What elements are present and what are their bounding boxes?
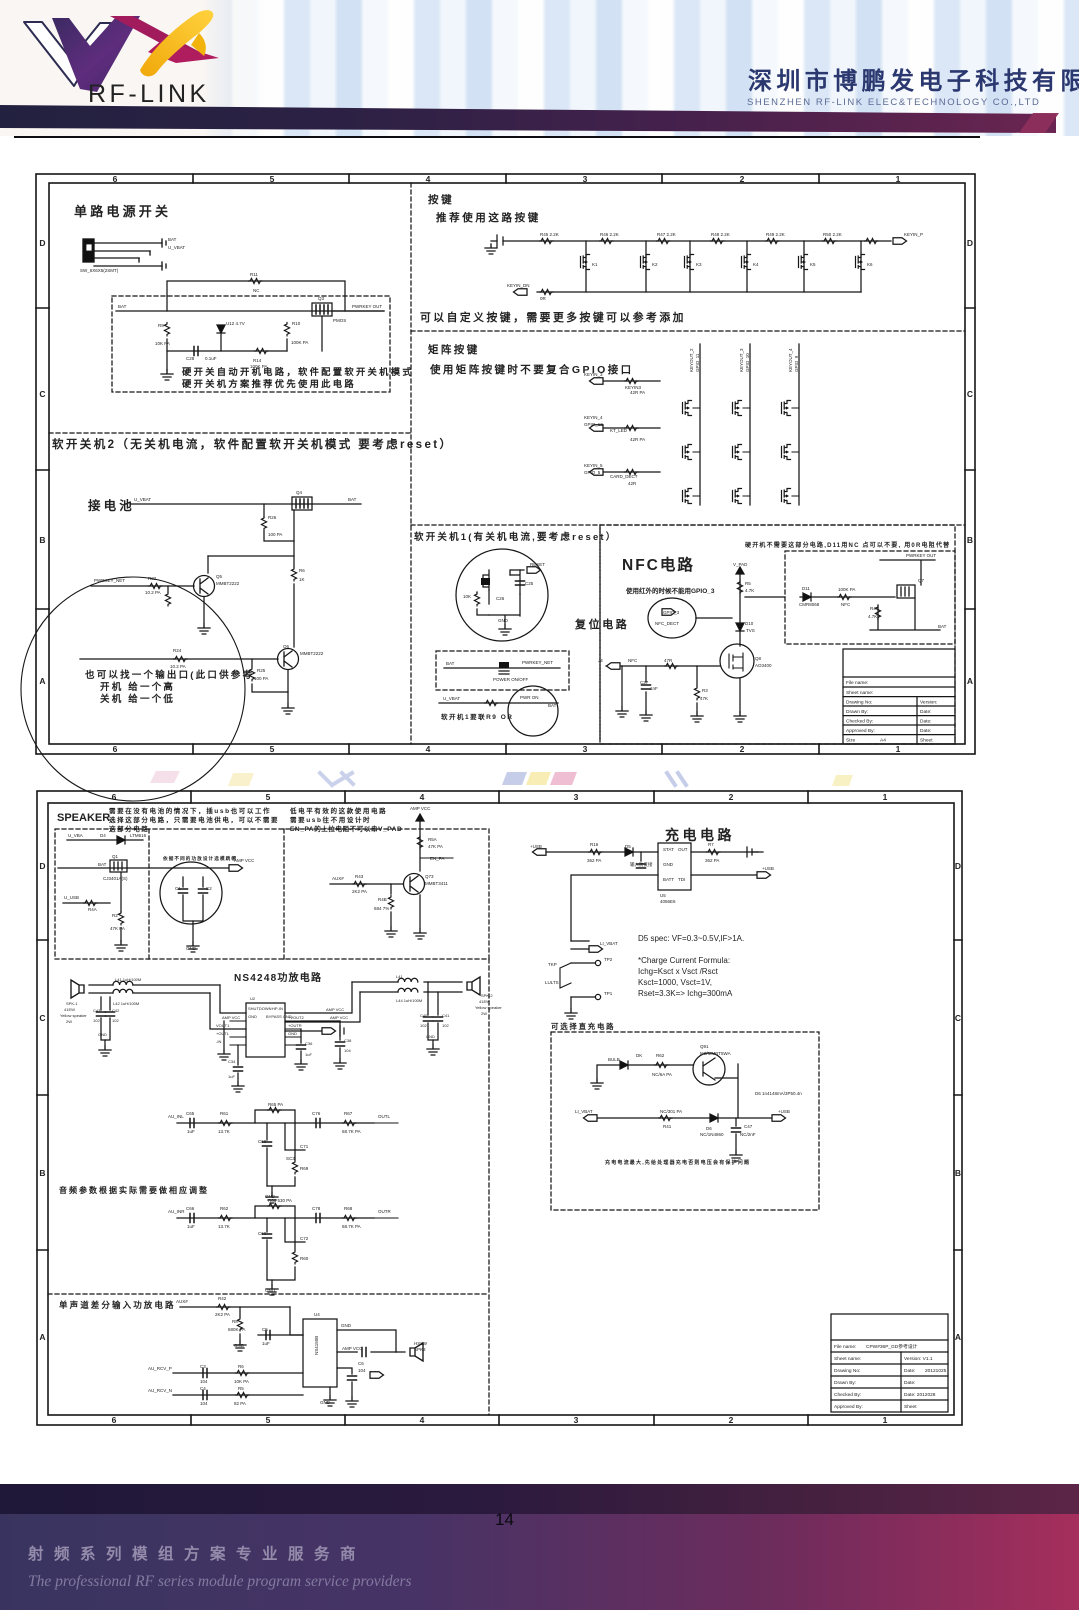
svg-text:10.2 PA: 10.2 PA (170, 664, 186, 669)
svg-text:NS4150B: NS4150B (314, 1336, 319, 1355)
svg-text:KEYIN_DN: KEYIN_DN (507, 283, 530, 288)
svg-text:C3: C3 (200, 1364, 206, 1369)
svg-text:CARD_DECT: CARD_DECT (610, 474, 638, 479)
svg-text:2K2 PA: 2K2 PA (352, 889, 367, 894)
svg-text:按键: 按键 (428, 193, 454, 206)
svg-text:R2: R2 (112, 913, 118, 918)
svg-text:充电电路: 充电电路 (665, 827, 735, 843)
svg-text:R68: R68 (344, 1206, 353, 1211)
svg-text:推荐使用这路按键: 推荐使用这路按键 (436, 211, 541, 224)
svg-text:2: 2 (729, 792, 734, 802)
svg-text:LULTS: LULTS (545, 980, 559, 985)
svg-text:C: C (967, 389, 973, 399)
svg-text:2: 2 (740, 744, 745, 754)
svg-text:100 PA: 100 PA (268, 532, 282, 537)
svg-text:+OUTL: +OUTL (216, 1031, 230, 1036)
svg-text:R22: R22 (148, 576, 157, 581)
svg-text:CMR8068: CMR8068 (799, 602, 820, 607)
svg-text:HP-IN: HP-IN (272, 1006, 283, 1011)
svg-text:这部分电路: 这部分电路 (109, 824, 150, 833)
svg-text:D: D (955, 861, 961, 871)
svg-text:GND: GND (234, 1343, 245, 1348)
svg-text:C5: C5 (262, 1327, 268, 1332)
svg-text:C42: C42 (112, 1008, 120, 1013)
svg-text:10K: 10K (463, 594, 471, 599)
svg-text:6: 6 (113, 174, 118, 184)
svg-text:C: C (39, 1013, 45, 1023)
svg-text:AMP VCC: AMP VCC (222, 1015, 240, 1020)
svg-text:PWRKEY OUT: PWRKEY OUT (906, 553, 936, 558)
svg-text:RESET: RESET (530, 562, 545, 567)
svg-text:Drawn By:: Drawn By: (846, 709, 868, 715)
svg-text:GND: GND (498, 618, 509, 623)
svg-text:Checked By:: Checked By: (834, 1392, 861, 1398)
svg-text:BULB: BULB (608, 1057, 620, 1062)
svg-text:KEYOUT_3: KEYOUT_3 (739, 348, 744, 372)
svg-text:Ichg=Ksct x Vsct /Rsct: Ichg=Ksct x Vsct /Rsct (638, 967, 719, 976)
svg-text:复位电路: 复位电路 (574, 617, 629, 631)
svg-text:GPIO_9: GPIO_9 (794, 355, 799, 372)
svg-text:GND: GND (320, 1400, 331, 1405)
svg-text:Q4: Q4 (296, 490, 303, 495)
svg-text:PWR ON: PWR ON (520, 695, 539, 700)
svg-text:输入防反接: 输入防反接 (630, 861, 653, 868)
svg-text:C68: C68 (258, 1139, 267, 1144)
svg-text:Sheet: Sheet (920, 738, 933, 744)
svg-text:2W: 2W (66, 1019, 72, 1024)
svg-text:C4: C4 (200, 1386, 206, 1391)
svg-text:D6 1n4148mA/3P50.4n: D6 1n4148mA/3P50.4n (755, 1091, 802, 1096)
svg-text:KEYIN_P: KEYIN_P (904, 232, 923, 237)
svg-text:Yellow speaker: Yellow speaker (475, 1005, 502, 1010)
svg-text:42R PA: 42R PA (630, 437, 645, 442)
svg-text:1nF: 1nF (650, 686, 658, 691)
svg-text:CJ3401A(S): CJ3401A(S) (103, 876, 128, 881)
svg-text:R6: R6 (299, 568, 305, 573)
svg-text:GND: GND (663, 862, 674, 867)
svg-text:1: 1 (896, 744, 901, 754)
svg-text:2W: 2W (481, 1011, 487, 1016)
svg-text:SPK-1: SPK-1 (66, 1001, 78, 1006)
svg-text:B: B (955, 1168, 961, 1178)
svg-text:GPIO_3: GPIO_3 (663, 610, 680, 615)
svg-text:KEYIN_5: KEYIN_5 (584, 463, 603, 468)
svg-text:A: A (967, 676, 973, 686)
svg-text:U12 4.7V: U12 4.7V (226, 321, 245, 326)
svg-text:GND: GND (248, 1014, 257, 1019)
svg-text:B: B (39, 535, 45, 545)
svg-text:NS4248功放电路: NS4248功放电路 (234, 971, 322, 984)
svg-text:BATT: BATT (663, 877, 674, 882)
svg-text:TKP: TKP (548, 962, 557, 967)
svg-text:NC/MMBT5WA: NC/MMBT5WA (700, 1051, 731, 1056)
svg-text:104: 104 (200, 1379, 208, 1384)
svg-text:软开机1要联R9 OR: 软开机1要联R9 OR (441, 712, 513, 721)
svg-text:362 PA: 362 PA (587, 858, 601, 863)
svg-text:C71: C71 (300, 1144, 309, 1149)
svg-text:AO3400: AO3400 (755, 663, 772, 668)
svg-text:Date: 2012028: Date: 2012028 (904, 1392, 936, 1398)
svg-text:接电池: 接电池 (88, 498, 135, 513)
svg-text:Ksct=1000, Vsct=1V,: Ksct=1000, Vsct=1V, (638, 978, 712, 987)
svg-text:D5 spec: VF=0.3~0.5V,IF>1A.: D5 spec: VF=0.3~0.5V,IF>1A. (638, 934, 744, 943)
svg-text:需要usb往不用设计时: 需要usb往不用设计时 (290, 815, 371, 824)
svg-text:EN_PA的上拉电阻不可以串V_PAD: EN_PA的上拉电阻不可以串V_PAD (290, 824, 402, 833)
svg-text:EN_PA: EN_PA (430, 856, 444, 861)
svg-text:LI_VBAT: LI_VBAT (575, 1109, 593, 1114)
svg-text:SW_6X6X5(2SMT): SW_6X6X5(2SMT) (80, 268, 119, 273)
svg-text:47R: 47R (664, 658, 673, 663)
svg-text:C6: C6 (358, 1361, 364, 1366)
svg-text:NFC: NFC (841, 602, 851, 607)
svg-text:R5: R5 (745, 581, 751, 586)
svg-text:C76: C76 (312, 1111, 321, 1116)
svg-text:R60: R60 (300, 1256, 309, 1261)
svg-text:4: 4 (426, 744, 431, 754)
svg-text:+USB: +USB (778, 1109, 790, 1114)
svg-text:A: A (39, 676, 45, 686)
svg-text:R48 2.2K: R48 2.2K (711, 232, 730, 237)
svg-text:1uF: 1uF (187, 1224, 195, 1229)
svg-text:102: 102 (112, 1018, 119, 1023)
svg-text:CPW#36P_GD参考设计: CPW#36P_GD参考设计 (866, 1343, 918, 1350)
svg-text:AUX#: AUX# (332, 876, 344, 881)
svg-text:PMOS: PMOS (333, 318, 346, 323)
svg-text:LI_VBAT: LI_VBAT (600, 941, 618, 946)
svg-text:+VOUT2: +VOUT2 (288, 1015, 304, 1020)
svg-text:Date:: Date: (920, 709, 931, 715)
svg-text:GPIO_10: GPIO_10 (745, 353, 750, 372)
svg-text:Q6: Q6 (283, 644, 290, 649)
svg-text:C66: C66 (186, 1206, 195, 1211)
svg-text:C1: C1 (175, 886, 181, 891)
svg-text:R46 2.2K: R46 2.2K (600, 232, 619, 237)
svg-text:AMP VCC: AMP VCC (234, 858, 255, 863)
svg-text:5: 5 (266, 792, 271, 802)
svg-text:6: 6 (112, 1415, 117, 1425)
svg-text:D10: D10 (745, 621, 754, 626)
svg-text:68.7K PA: 68.7K PA (342, 1224, 361, 1229)
svg-text:A: A (39, 1332, 45, 1342)
svg-text:100 PA: 100 PA (254, 676, 268, 681)
svg-text:A: A (955, 1332, 961, 1342)
svg-text:100K PA: 100K PA (291, 340, 308, 345)
svg-text:R49 2.2K: R49 2.2K (766, 232, 785, 237)
svg-text:需要在没有电池的情况下，插usb也可以工作: 需要在没有电池的情况下，插usb也可以工作 (109, 806, 271, 815)
svg-text:Drawing No:: Drawing No: (846, 700, 872, 706)
svg-text:AMP VCC: AMP VCC (342, 1346, 363, 1351)
svg-text:R10: R10 (292, 321, 301, 326)
svg-text:Drawn By:: Drawn By: (834, 1380, 856, 1386)
svg-text:6: 6 (113, 744, 118, 754)
svg-text:矩阵按键: 矩阵按键 (428, 343, 480, 356)
svg-text:AU_INL: AU_INL (168, 1114, 184, 1119)
svg-text:TP2: TP2 (604, 957, 613, 962)
svg-text:单路电源开关: 单路电源开关 (74, 204, 171, 219)
svg-text:R11: R11 (250, 272, 258, 277)
svg-text:L44 1uH/100M: L44 1uH/100M (396, 998, 422, 1003)
svg-text:GND: GND (265, 1288, 276, 1293)
svg-text:R50 2.2K: R50 2.2K (823, 232, 842, 237)
svg-text:3: 3 (574, 1415, 579, 1425)
svg-text:U5: U5 (660, 893, 666, 898)
svg-text:GND: GND (426, 1034, 435, 1039)
svg-text:DK: DK (636, 1053, 642, 1058)
svg-text:File name:: File name: (846, 680, 868, 686)
svg-text:B: B (39, 1168, 45, 1178)
svg-text:Date:: Date: (920, 719, 931, 725)
svg-text:2: 2 (729, 1415, 734, 1425)
svg-text:Yellow speaker: Yellow speaker (60, 1013, 87, 1018)
svg-text:K2: K2 (652, 262, 658, 267)
svg-text:1uF: 1uF (262, 1341, 270, 1346)
svg-text:U_VBA: U_VBA (68, 833, 83, 838)
svg-text:K4: K4 (753, 262, 759, 267)
svg-text:BAT: BAT (446, 661, 455, 666)
svg-text:Date:: Date: (904, 1380, 915, 1386)
svg-text:TVS: TVS (746, 628, 755, 633)
svg-text:0R: 0R (540, 296, 547, 301)
svg-text:+USB: +USB (530, 844, 542, 849)
svg-text:SPK3: SPK3 (414, 1347, 426, 1352)
svg-text:NC: NC (253, 288, 260, 293)
svg-text:R8: R8 (232, 1319, 238, 1324)
svg-text:Q3: Q3 (318, 296, 325, 301)
svg-text:680K PA: 680K PA (228, 1327, 245, 1332)
svg-text:KT_LED: KT_LED (610, 428, 628, 433)
svg-text:47K: 47K (700, 696, 708, 701)
svg-text:GND: GND (98, 1032, 107, 1037)
svg-text:Size: Size (846, 738, 856, 744)
svg-text:362 PA: 362 PA (705, 858, 719, 863)
svg-text:NC/301 PA: NC/301 PA (660, 1109, 682, 1114)
svg-text:BAT: BAT (548, 703, 557, 708)
svg-text:R41: R41 (663, 1124, 672, 1129)
svg-text:Sheet: Sheet (904, 1404, 917, 1410)
svg-text:C38: C38 (344, 1038, 352, 1043)
svg-text:Approved By:: Approved By: (846, 728, 875, 734)
svg-text:VOUT1: VOUT1 (216, 1023, 230, 1028)
svg-text:音频参数根据实际需要做相应调整: 音频参数根据实际需要做相应调整 (59, 1185, 209, 1195)
svg-text:3: 3 (574, 792, 579, 802)
svg-text:D4: D4 (100, 833, 106, 838)
svg-text:R4A: R4A (88, 907, 97, 912)
svg-text:BAT: BAT (938, 624, 947, 629)
svg-text:Date:: Date: (904, 1368, 915, 1374)
svg-text:AU_RCV_N: AU_RCV_N (148, 1388, 172, 1393)
svg-text:102: 102 (442, 1023, 449, 1028)
svg-text:SC3: SC3 (286, 1156, 295, 1161)
svg-text:R9: R9 (158, 323, 164, 328)
svg-text:47K PA: 47K PA (110, 926, 125, 931)
svg-text:1uF: 1uF (228, 1074, 235, 1079)
svg-text:R45 2.2K: R45 2.2K (540, 232, 559, 237)
svg-text:AMP VCC: AMP VCC (330, 1015, 348, 1020)
svg-text:-IN: -IN (216, 1039, 221, 1044)
svg-text:C40: C40 (420, 1013, 428, 1018)
svg-text:4.7K: 4.7K (868, 614, 877, 619)
svg-text:6: 6 (112, 792, 117, 802)
svg-text:2K2 PA: 2K2 PA (215, 1312, 230, 1317)
svg-text:A4: A4 (880, 738, 886, 744)
svg-text:41EW: 41EW (64, 1007, 75, 1012)
svg-text:5: 5 (270, 744, 275, 754)
svg-text:Rset=3.3K=> Ichg=300mA: Rset=3.3K=> Ichg=300mA (638, 989, 733, 998)
svg-text:L41: L41 (396, 974, 403, 979)
svg-text:C25: C25 (525, 581, 534, 586)
svg-text:K1: K1 (592, 262, 598, 267)
svg-text:Q91: Q91 (700, 1044, 709, 1049)
svg-text:TDI: TDI (678, 877, 685, 882)
svg-text:OUT: OUT (678, 847, 688, 852)
svg-text:82 PA: 82 PA (234, 1401, 246, 1406)
svg-text:充电电流最大,先给处理器充电否则电压会有保护问题: 充电电流最大,先给处理器充电否则电压会有保护问题 (605, 1159, 750, 1166)
svg-text:GND: GND (341, 1323, 352, 1328)
svg-text:POWER ON/OFF: POWER ON/OFF (493, 677, 528, 682)
svg-text:GPIO_11: GPIO_11 (695, 353, 700, 372)
svg-text:R3: R3 (702, 688, 708, 693)
svg-text:C27: C27 (640, 680, 649, 685)
svg-text:硬开关自动开机电路，软件配置软开关机模式: 硬开关自动开机电路，软件配置软开关机模式 (182, 366, 414, 377)
svg-text:10.2 PA: 10.2 PA (145, 590, 161, 595)
svg-text:R25: R25 (257, 668, 266, 673)
svg-text:13.7K: 13.7K (218, 1224, 230, 1229)
svg-text:C26: C26 (496, 596, 505, 601)
svg-text:R66 530 PA: R66 530 PA (268, 1198, 292, 1203)
svg-text:684 7%: 684 7% (374, 906, 389, 911)
svg-text:R43: R43 (355, 874, 364, 879)
svg-text:4: 4 (420, 1415, 425, 1425)
svg-text:SHUTDOWN: SHUTDOWN (248, 1006, 272, 1011)
svg-text:AU_INR: AU_INR (168, 1209, 185, 1214)
svg-text:R16: R16 (590, 842, 599, 847)
svg-text:GND: GND (288, 1031, 297, 1036)
svg-text:C78: C78 (312, 1206, 321, 1211)
svg-text:硬开关机方案推荐优先使用此电路: 硬开关机方案推荐优先使用此电路 (182, 378, 356, 389)
svg-text:R62: R62 (656, 1053, 665, 1058)
svg-text:也可以找一个输出口(此口供参考: 也可以找一个输出口(此口供参考 (85, 669, 254, 681)
svg-text:MMBT3411: MMBT3411 (425, 881, 448, 886)
svg-text:R4: R4 (870, 606, 876, 611)
svg-text:2: 2 (740, 174, 745, 184)
svg-text:42R PA: 42R PA (630, 390, 645, 395)
svg-text:1uF: 1uF (305, 1052, 312, 1057)
svg-text:HS8W: HS8W (414, 1341, 428, 1346)
svg-text:R62: R62 (220, 1206, 229, 1211)
svg-text:5: 5 (270, 174, 275, 184)
svg-text:PWRKEY_NET: PWRKEY_NET (522, 660, 553, 665)
svg-text:R14: R14 (253, 358, 262, 363)
svg-text:C34: C34 (228, 1059, 236, 1064)
svg-text:D: D (39, 238, 45, 248)
svg-text:BAT: BAT (98, 862, 107, 867)
svg-text:STAT: STAT (663, 847, 674, 852)
svg-text:选择这部分电路，只需要电池供电，可以不需要: 选择这部分电路，只需要电池供电，可以不需要 (109, 815, 279, 824)
svg-text:R24: R24 (173, 648, 182, 653)
svg-text:软开关机2（无关机电流，软件配置软开关机模式 要考虑rese: 软开关机2（无关机电流，软件配置软开关机模式 要考虑reset） (52, 437, 453, 451)
svg-text:K3: K3 (696, 262, 702, 267)
svg-text:R5: R5 (238, 1386, 244, 1391)
svg-text:File name:: File name: (834, 1344, 856, 1350)
svg-text:R5A: R5A (428, 837, 437, 842)
svg-text:OUTR: OUTR (378, 1209, 391, 1214)
svg-text:GPIO_5: GPIO_5 (584, 470, 601, 475)
svg-text:Q7: Q7 (918, 578, 925, 583)
svg-text:U_VBAT: U_VBAT (443, 696, 460, 701)
svg-text:Q5: Q5 (216, 574, 223, 579)
svg-text:AMP VCC: AMP VCC (326, 1007, 344, 1012)
svg-text:KEYOUT_2: KEYOUT_2 (689, 348, 694, 372)
svg-text:D5: D5 (625, 844, 631, 849)
svg-text:L41 1uH/100M: L41 1uH/100M (115, 977, 141, 982)
svg-text:C2: C2 (206, 886, 212, 891)
svg-text:Checked By:: Checked By: (846, 719, 873, 725)
svg-text:Q8: Q8 (755, 656, 762, 661)
svg-text:104: 104 (344, 1048, 351, 1053)
svg-text:GND: GND (186, 946, 197, 951)
svg-text:单声道差分输入功放电路: 单声道差分输入功放电路 (59, 1300, 176, 1310)
svg-text:Q1: Q1 (112, 854, 119, 859)
svg-text:Sheet name:: Sheet name: (834, 1356, 861, 1362)
svg-text:关机 给一个低: 关机 给一个低 (100, 693, 175, 705)
svg-text:K5: K5 (810, 262, 816, 267)
svg-text:104: 104 (200, 1401, 208, 1406)
svg-text:1: 1 (883, 792, 888, 802)
svg-text:R4B: R4B (378, 897, 387, 902)
svg-text:3: 3 (583, 174, 588, 184)
svg-text:C65: C65 (186, 1111, 195, 1116)
svg-text:R42: R42 (218, 1296, 227, 1301)
svg-text:42R: 42R (628, 481, 637, 486)
svg-text:C36: C36 (305, 1041, 313, 1046)
svg-text:4: 4 (420, 792, 425, 802)
svg-text:100K PA: 100K PA (838, 587, 855, 592)
svg-text:使用矩阵按键时不要复合GPIO接口: 使用矩阵按键时不要复合GPIO接口 (429, 363, 634, 376)
svg-text:AU_RCV_P: AU_RCV_P (148, 1366, 172, 1371)
svg-text:C72: C72 (300, 1236, 309, 1241)
svg-text:1uF: 1uF (187, 1129, 195, 1134)
svg-text:使用红外的时候不能用GPIO_3: 使用红外的时候不能用GPIO_3 (625, 586, 715, 595)
svg-text:Approved By:: Approved By: (834, 1404, 863, 1410)
svg-text:B: B (967, 535, 973, 545)
svg-text:J4: J4 (598, 658, 603, 663)
svg-text:+USB: +USB (762, 866, 774, 871)
svg-text:D6: D6 (706, 1126, 712, 1131)
svg-text:13.7K: 13.7K (218, 1129, 230, 1134)
svg-text:C41: C41 (442, 1013, 450, 1018)
svg-text:BAT: BAT (348, 497, 357, 502)
svg-text:NC/1N4860: NC/1N4860 (700, 1132, 724, 1137)
svg-text:OUTL: OUTL (378, 1114, 390, 1119)
svg-text:1K: 1K (299, 577, 305, 582)
svg-text:C43: C43 (93, 1008, 101, 1013)
svg-text:开机 给一个高: 开机 给一个高 (100, 681, 175, 693)
svg-text:C28: C28 (186, 356, 195, 361)
svg-text:BAT: BAT (118, 304, 127, 309)
svg-text:U_VBAT: U_VBAT (168, 245, 185, 250)
svg-text:C69: C69 (258, 1231, 267, 1236)
svg-text:LTM616: LTM616 (130, 833, 147, 838)
svg-text:TP1: TP1 (604, 991, 613, 996)
svg-text:KEYOUT_4: KEYOUT_4 (788, 348, 793, 372)
svg-text:K6: K6 (867, 262, 873, 267)
svg-text:PWRKEY_NET: PWRKEY_NET (94, 578, 125, 583)
svg-text:U4: U4 (314, 1312, 320, 1317)
svg-text:10K PA: 10K PA (155, 341, 170, 346)
svg-text:41EW: 41EW (479, 999, 490, 1004)
svg-text:SPK-2: SPK-2 (481, 993, 493, 998)
svg-text:低电平有效的这款使用电路: 低电平有效的这款使用电路 (289, 806, 387, 815)
